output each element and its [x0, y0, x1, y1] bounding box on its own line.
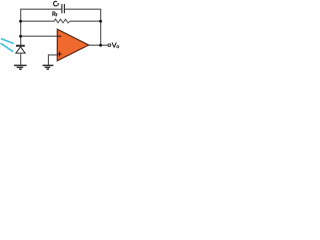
- wire inverting input: [21, 35, 58, 37]
- label VO: [112, 43, 119, 48]
- wire right vertical (output feedback): [100, 9, 102, 46]
- node dot output junction: [99, 44, 102, 47]
- ground G2 (non-inverting input): [43, 64, 54, 66]
- light arrow 1: [1, 39, 14, 44]
- light arrow 2: [1, 43, 14, 52]
- wire non-inverting input: [48, 55, 57, 65]
- wire photodiode to ground: [20, 53, 22, 65]
- op-amp minus sign: [58, 35, 61, 37]
- op-amp U1 triangle: [57, 29, 88, 61]
- wire output: [89, 44, 109, 46]
- node dot RF-left junction: [19, 20, 22, 23]
- ground G1 (photodiode): [14, 64, 27, 66]
- wire top feedback (CF wire): [21, 8, 101, 10]
- capacitor CF plates: [62, 4, 65, 13]
- op-amp plus sign: [57, 52, 61, 57]
- resistor RF zigzag: [54, 19, 70, 23]
- label RF: [52, 12, 57, 17]
- node dot RF-right junction: [99, 20, 102, 23]
- node dot inverting junction: [19, 35, 22, 38]
- photodiode D1 cathode bar: [16, 45, 25, 47]
- photodiode D1 triangle (anode): [16, 47, 25, 53]
- wire RF left: [21, 20, 55, 22]
- wire left vertical (inverting node): [20, 9, 22, 46]
- wire RF right: [70, 20, 101, 22]
- output terminal circle: [108, 44, 111, 47]
- label CF: [54, 1, 60, 6]
